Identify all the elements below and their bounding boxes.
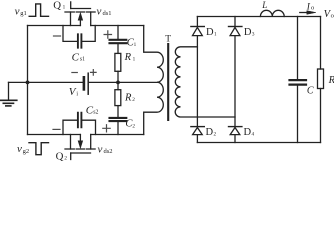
label Io	[306, 2, 314, 12]
svg-text:1: 1	[134, 42, 137, 48]
svg-text:v: v	[98, 143, 103, 155]
svg-text:1: 1	[63, 5, 66, 11]
svg-text:C: C	[72, 52, 80, 64]
svg-text:Q: Q	[53, 0, 61, 12]
svg-text:i: i	[76, 91, 78, 97]
transformer core	[167, 44, 169, 120]
gate pulse waveform vg1	[29, 4, 48, 16]
label C1	[127, 37, 137, 48]
svg-text:v: v	[97, 5, 102, 17]
node dot at divider midpoint	[116, 81, 120, 85]
label Cs2	[86, 105, 99, 117]
label D2	[206, 127, 217, 138]
svg-text:o: o	[311, 5, 314, 12]
label vds2	[98, 143, 113, 155]
svg-text:D: D	[206, 127, 214, 138]
label T	[165, 34, 171, 44]
svg-text:2: 2	[214, 131, 217, 137]
label D3	[244, 27, 255, 38]
plus sign of C2	[103, 125, 110, 132]
wire R1 to R2 through node	[117, 71, 119, 89]
label Cs1	[72, 52, 86, 64]
svg-text:3: 3	[252, 31, 255, 37]
wire bridge bottom rail	[197, 142, 320, 144]
label vds1	[97, 5, 112, 17]
transformer primary winding	[144, 26, 164, 135]
capacitor C1	[110, 26, 127, 54]
svg-text:s1: s1	[80, 57, 85, 63]
svg-text:D: D	[206, 27, 214, 38]
label C2	[125, 119, 135, 130]
node dot on left rail	[26, 81, 30, 85]
capacitor Cs2	[63, 113, 96, 135]
wire Q1 drain to transformer corner	[91, 25, 144, 27]
output current arrow Io	[300, 11, 316, 15]
wire left rail	[27, 26, 29, 135]
wire bridge left leg	[196, 17, 198, 143]
svg-text:L: L	[261, 0, 267, 10]
battery Vi	[84, 73, 88, 94]
wire bridge top rail	[197, 16, 320, 18]
label L	[261, 0, 267, 10]
svg-text:o: o	[331, 12, 334, 19]
minus sign of Cs1	[54, 35, 61, 37]
transistor Q2 (MOSFET)	[65, 135, 95, 160]
capacitor C	[290, 17, 307, 143]
label C	[307, 85, 314, 96]
ground	[0, 82, 17, 106]
label R	[328, 75, 334, 86]
plus sign of Vi	[91, 70, 97, 76]
minus sign of Cs2	[53, 128, 60, 130]
svg-text:4: 4	[252, 131, 255, 137]
diode D3	[229, 27, 242, 36]
wire top-left from rail to Q1 source	[28, 25, 81, 27]
label Vi	[69, 86, 79, 98]
wire middle from ground to battery	[9, 81, 83, 83]
resistor R	[318, 17, 324, 143]
svg-text:1: 1	[214, 31, 217, 37]
plus sign of C1	[104, 31, 111, 38]
svg-text:ds2: ds2	[104, 148, 113, 155]
diode D2	[191, 127, 204, 135]
svg-text:2: 2	[64, 155, 67, 161]
capacitor C2	[110, 106, 127, 135]
diode D1	[191, 27, 204, 36]
label Vo	[324, 9, 334, 20]
svg-text:ds1: ds1	[103, 10, 112, 17]
gate pulse waveform vg2	[29, 143, 49, 155]
label Q1	[53, 0, 65, 12]
svg-text:g2: g2	[23, 148, 30, 155]
label Q2	[56, 150, 68, 162]
wire Q2 drain to transformer corner	[91, 134, 144, 136]
label D4	[244, 127, 255, 138]
minus sign of Vi	[72, 72, 77, 74]
capacitor Cs1	[63, 26, 95, 48]
wire battery to divider node and primary center tap	[89, 81, 157, 83]
wire bottom-left from rail to Q2 source	[28, 134, 81, 136]
transistor Q1 (MOSFET)	[65, 2, 95, 26]
label vg2	[17, 143, 29, 155]
svg-text:2: 2	[132, 97, 135, 103]
svg-text:v: v	[17, 143, 22, 155]
svg-text:g1: g1	[20, 10, 27, 17]
label R1	[124, 52, 136, 63]
svg-text:D: D	[244, 27, 252, 38]
inductor L	[260, 10, 284, 16]
resistor R2	[115, 90, 121, 106]
svg-text:1: 1	[133, 56, 136, 62]
transformer secondary winding	[175, 47, 235, 117]
svg-text:2: 2	[132, 123, 135, 129]
svg-text:Q: Q	[56, 150, 64, 161]
svg-text:R: R	[124, 52, 132, 63]
svg-text:s2: s2	[93, 110, 98, 116]
diode D4	[229, 127, 242, 135]
label R2	[124, 93, 135, 104]
svg-text:T: T	[165, 34, 171, 44]
svg-text:C: C	[307, 85, 314, 96]
label D1	[206, 27, 217, 38]
svg-text:v: v	[15, 5, 20, 17]
label vg1	[15, 5, 27, 17]
svg-text:R: R	[124, 93, 132, 104]
wire bridge right leg	[234, 17, 236, 143]
svg-text:D: D	[244, 127, 252, 138]
svg-text:R: R	[328, 75, 334, 86]
resistor R1	[115, 53, 121, 71]
